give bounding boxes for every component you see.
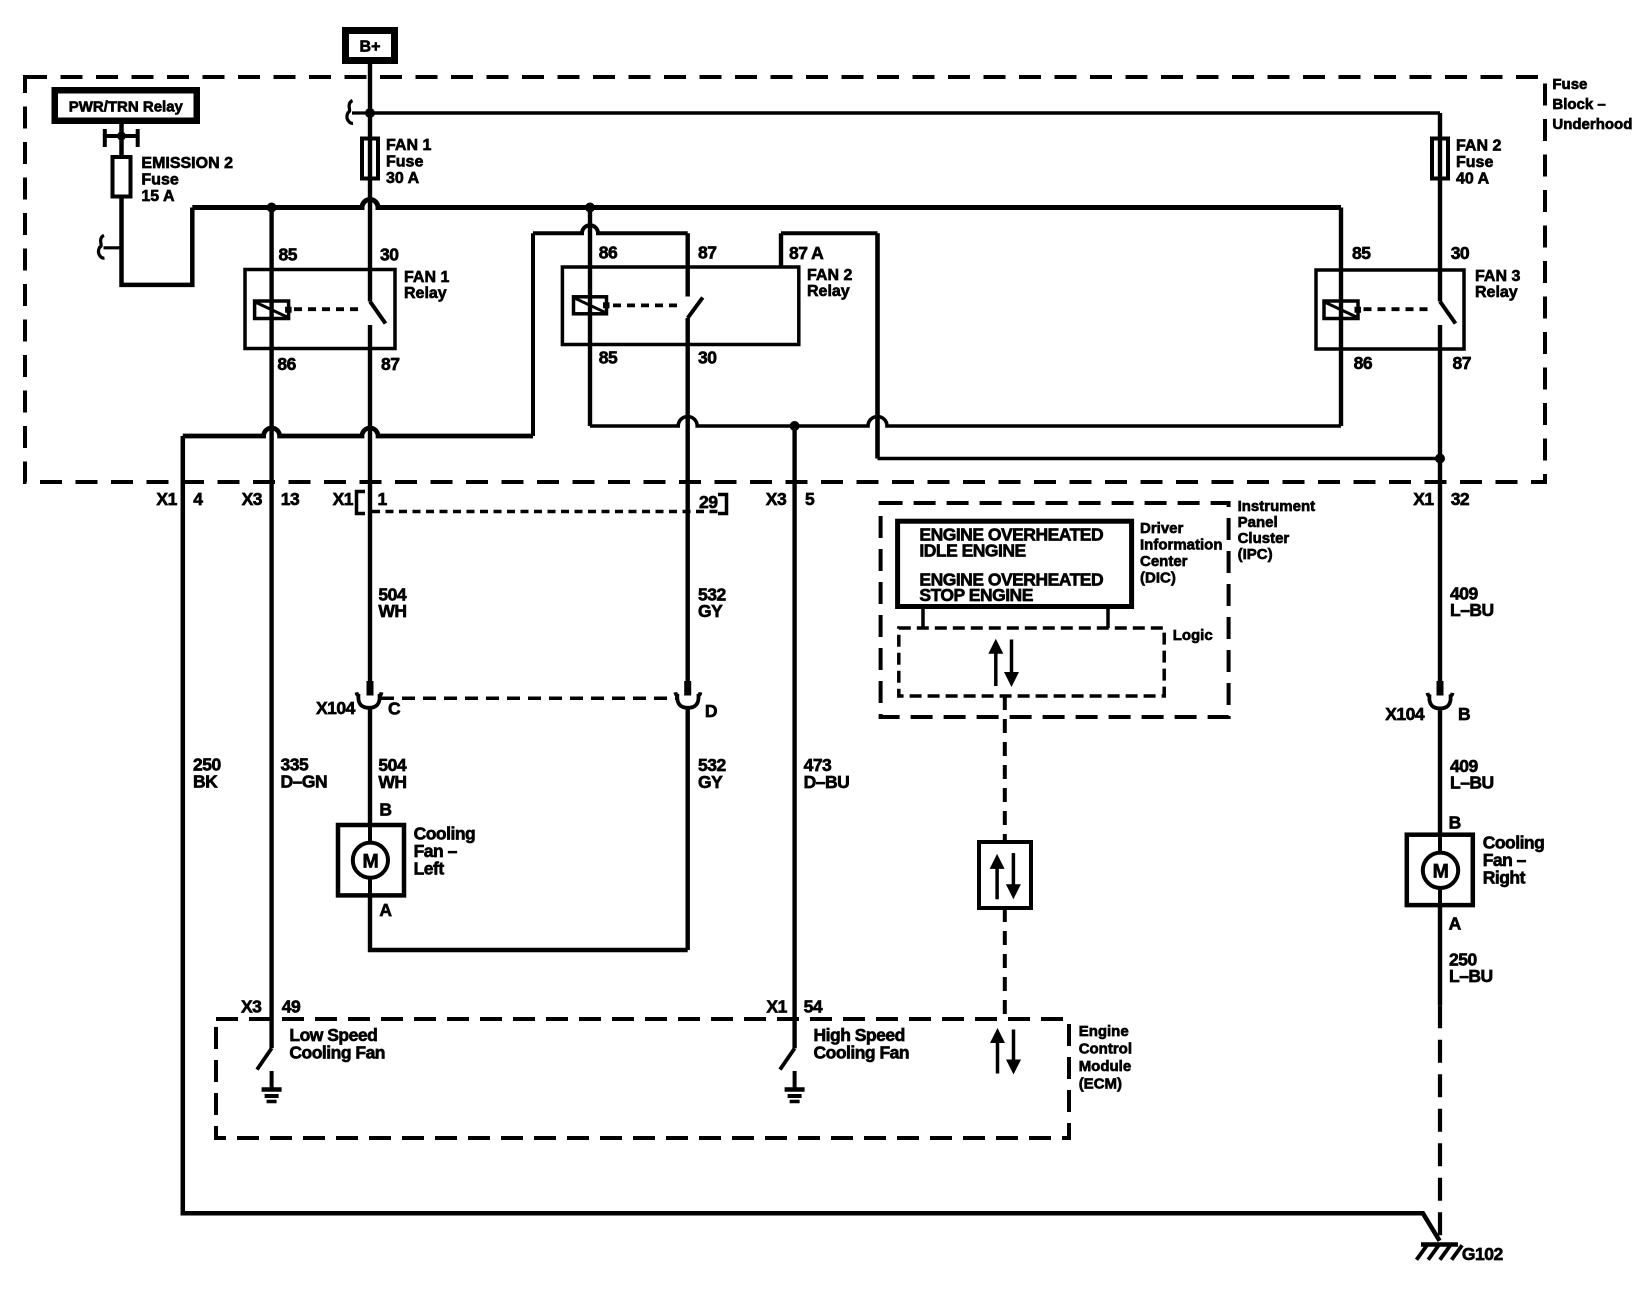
svg-text:87: 87 [1453,353,1471,373]
svg-text:29: 29 [699,492,718,512]
svg-text:M: M [1433,861,1449,883]
svg-text:30: 30 [1451,243,1470,263]
svg-text:Engine: Engine [1079,1023,1129,1040]
svg-text:WH: WH [378,772,406,792]
svg-text:(IPC): (IPC) [1238,546,1273,563]
svg-text:FAN 2: FAN 2 [1456,138,1501,155]
svg-text:87 A: 87 A [789,243,824,263]
svg-text:FAN 1: FAN 1 [386,137,431,154]
svg-text:85: 85 [1352,243,1371,263]
svg-text:X104: X104 [1385,704,1425,724]
svg-text:A: A [1449,914,1462,934]
svg-text:15 A: 15 A [141,188,175,205]
svg-text:Fuse: Fuse [141,172,178,189]
svg-text:Module: Module [1079,1058,1132,1075]
svg-text:X1: X1 [333,489,354,509]
svg-text:13: 13 [281,489,300,509]
svg-text:B: B [1458,704,1470,724]
svg-text:IDLE ENGINE: IDLE ENGINE [919,541,1025,561]
svg-text:(DIC): (DIC) [1140,570,1176,587]
svg-text:X3: X3 [242,489,263,509]
svg-text:Underhood: Underhood [1552,116,1632,133]
svg-text:X1: X1 [766,997,787,1017]
svg-text:85: 85 [279,245,298,265]
svg-text:BK: BK [193,771,218,791]
svg-text:STOP ENGINE: STOP ENGINE [919,585,1032,605]
svg-text:WH: WH [378,601,406,621]
svg-text:Block –: Block – [1552,96,1605,113]
svg-text:(ECM): (ECM) [1079,1076,1122,1093]
svg-text:32: 32 [1451,489,1470,509]
svg-text:Relay: Relay [1475,284,1518,301]
svg-text:4: 4 [193,489,203,509]
svg-text:C: C [388,699,401,719]
svg-text:Cluster: Cluster [1238,530,1290,547]
svg-text:1: 1 [378,489,388,509]
svg-text:A: A [379,900,392,920]
svg-text:Cooling Fan: Cooling Fan [814,1042,910,1062]
svg-text:X1: X1 [1413,489,1434,509]
svg-text:L–BU: L–BU [1450,773,1494,793]
svg-text:EMISSION 2: EMISSION 2 [141,155,233,172]
svg-text:30: 30 [698,348,717,368]
svg-text:Information: Information [1140,537,1223,554]
svg-text:Driver: Driver [1140,520,1184,537]
svg-text:X3: X3 [766,489,787,509]
svg-text:86: 86 [599,243,618,263]
svg-text:40 A: 40 A [1456,171,1490,188]
svg-text:X104: X104 [316,698,356,718]
svg-text:Center: Center [1140,553,1188,570]
svg-text:30 A: 30 A [386,170,420,187]
svg-text:Fuse: Fuse [1552,76,1587,93]
svg-text:B+: B+ [360,39,381,56]
svg-text:X1: X1 [156,489,177,509]
svg-text:FAN 2: FAN 2 [807,267,852,284]
svg-text:Control: Control [1079,1041,1132,1058]
svg-text:GY: GY [698,772,723,792]
svg-text:GY: GY [698,601,723,621]
svg-text:86: 86 [1354,353,1373,373]
svg-text:FAN 1: FAN 1 [404,269,449,286]
svg-text:Panel: Panel [1238,514,1278,531]
svg-text:85: 85 [599,348,618,368]
svg-text:54: 54 [804,997,823,1017]
svg-text:Fuse: Fuse [386,154,423,171]
svg-text:FAN 3: FAN 3 [1475,268,1520,285]
svg-text:X3: X3 [241,997,262,1017]
svg-text:Logic: Logic [1173,627,1213,644]
svg-text:49: 49 [282,997,301,1017]
svg-text:Fuse: Fuse [1456,154,1493,171]
svg-text:B: B [379,800,391,820]
svg-text:L–BU: L–BU [1450,600,1494,620]
svg-text:D–BU: D–BU [804,772,850,792]
svg-text:Left: Left [414,859,445,879]
svg-text:5: 5 [805,489,815,509]
svg-text:B: B [1449,813,1461,833]
svg-text:Cooling Fan: Cooling Fan [289,1042,385,1062]
svg-text:PWR/TRN Relay: PWR/TRN Relay [69,99,184,116]
svg-text:Relay: Relay [807,283,850,300]
svg-text:Right: Right [1483,868,1526,888]
svg-text:87: 87 [381,354,399,374]
svg-text:L–BU: L–BU [1449,966,1493,986]
svg-text:Relay: Relay [404,285,447,302]
svg-text:30: 30 [380,245,399,265]
svg-text:D: D [705,701,717,721]
svg-text:86: 86 [277,354,296,374]
svg-text:Instrument: Instrument [1238,498,1316,515]
svg-text:87: 87 [698,243,716,263]
svg-text:M: M [363,851,379,873]
svg-text:G102: G102 [1462,1244,1504,1264]
svg-text:D–GN: D–GN [281,771,328,791]
